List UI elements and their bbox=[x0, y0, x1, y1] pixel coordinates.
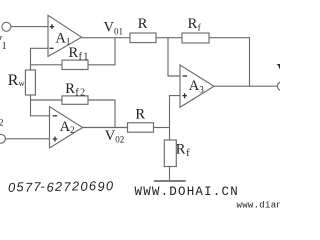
svg-text:R: R bbox=[138, 16, 148, 32]
resistor R top bbox=[130, 33, 156, 43]
wire A3 output bbox=[214, 85, 278, 87]
resistor Rf2 bbox=[62, 96, 88, 104]
A2 minus mark bbox=[53, 115, 57, 117]
wire input2 to A2 + bbox=[5, 138, 49, 140]
wire Rf2 left bbox=[31, 99, 63, 101]
svg-text:Rf: Rf bbox=[188, 16, 202, 34]
op-amp A2 bbox=[50, 107, 83, 148]
svg-text:V02: V02 bbox=[105, 128, 124, 145]
wire Rf1 left bbox=[31, 64, 63, 66]
svg-text:Rw: Rw bbox=[8, 72, 26, 89]
input terminal 1 bbox=[2, 22, 11, 31]
wire Rf lower to ground bbox=[169, 167, 171, 182]
wire Rf right bbox=[209, 38, 250, 86]
resistor Rf top bbox=[182, 33, 209, 43]
wire A2 output bbox=[83, 127, 128, 129]
wire R to Rf top bbox=[156, 37, 182, 39]
wire Rf2 right to node V02 bbox=[88, 100, 115, 128]
wire A3 + input bbox=[170, 96, 181, 140]
svg-text:Rf: Rf bbox=[176, 141, 190, 159]
wire node to A3 - input bbox=[168, 38, 180, 76]
svg-text:V1: V1 bbox=[0, 34, 7, 52]
A1 plus mark bbox=[50, 24, 55, 29]
wire A1 - input bbox=[31, 48, 49, 70]
wire R lower to node bbox=[154, 127, 170, 129]
svg-text:WWW.DOHAI.CN: WWW.DOHAI.CN bbox=[135, 185, 239, 199]
resistor Rf lower bbox=[164, 140, 176, 167]
svg-text:Rf2: Rf2 bbox=[65, 81, 86, 98]
A3 plus mark bbox=[182, 93, 187, 98]
svg-text:0577-62720690: 0577-62720690 bbox=[8, 178, 114, 195]
A2 plus mark bbox=[53, 137, 58, 142]
ground bbox=[154, 180, 186, 182]
resistor Rf1 bbox=[62, 60, 88, 69]
input terminal 2 bbox=[0, 134, 5, 143]
op-amp A1 bbox=[48, 15, 82, 56]
resistor Rw bbox=[25, 70, 35, 95]
svg-text:V01: V01 bbox=[104, 20, 123, 37]
wire A1 output bbox=[82, 37, 131, 39]
A1 minus mark bbox=[49, 47, 53, 49]
svg-text:V2: V2 bbox=[0, 111, 3, 128]
svg-text:V: V bbox=[276, 60, 280, 80]
A3 minus mark bbox=[183, 75, 188, 77]
svg-text:Rf1: Rf1 bbox=[69, 45, 90, 62]
wire Rf1 right to node V01 bbox=[88, 38, 115, 65]
resistor R lower bbox=[128, 123, 154, 132]
svg-text:R: R bbox=[135, 107, 145, 123]
wire Rw bottom to A2 - bbox=[31, 95, 50, 116]
op-amp A3 bbox=[180, 65, 214, 107]
output terminal bbox=[278, 82, 287, 91]
wire input1 to A1 + bbox=[11, 26, 48, 28]
svg-text:www.dian: www.dian bbox=[237, 201, 281, 210]
